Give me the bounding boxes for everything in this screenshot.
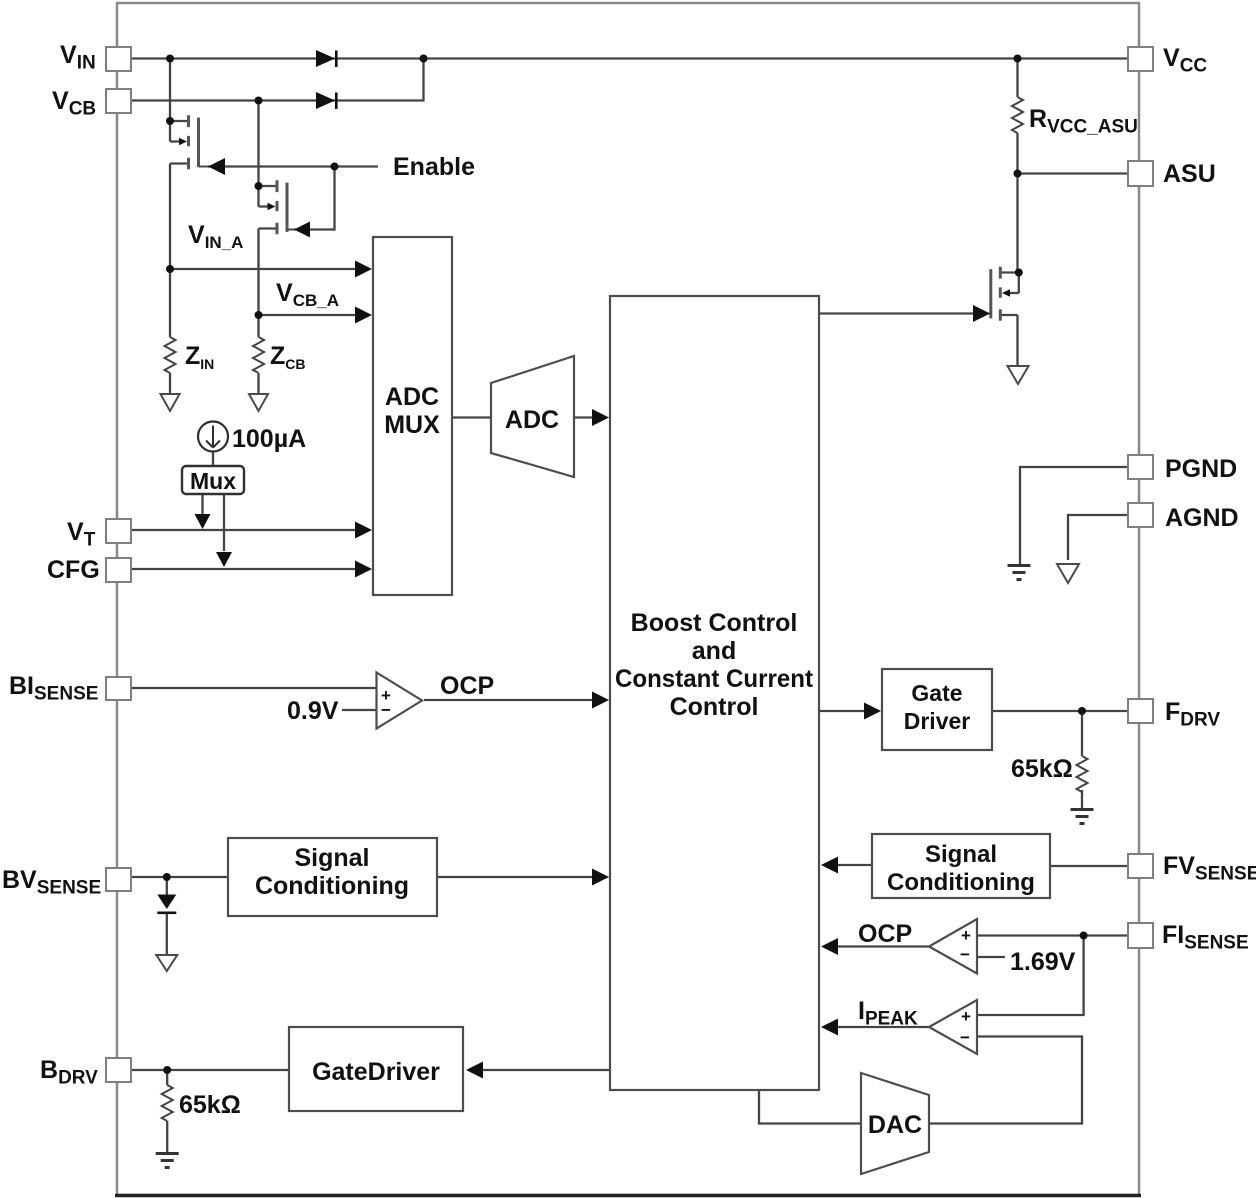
- svg-text:Enable: Enable: [393, 153, 475, 181]
- svg-text:1.69V: 1.69V: [1010, 948, 1076, 976]
- svg-text:CFG: CFG: [47, 556, 100, 584]
- svg-text:DAC: DAC: [868, 1111, 922, 1139]
- svg-text:65kΩ: 65kΩ: [179, 1091, 241, 1119]
- svg-text:Constant Current: Constant Current: [615, 665, 814, 693]
- svg-text:Driver: Driver: [904, 708, 971, 734]
- svg-text:+: +: [961, 1007, 971, 1026]
- svg-text:Conditioning: Conditioning: [255, 872, 409, 900]
- svg-text:and: and: [692, 637, 736, 665]
- svg-text:GateDriver: GateDriver: [312, 1058, 440, 1086]
- svg-text:PGND: PGND: [1165, 455, 1237, 483]
- svg-text:Gate: Gate: [911, 680, 962, 706]
- svg-text:Boost Control: Boost Control: [631, 609, 798, 637]
- svg-text:OCP: OCP: [440, 672, 494, 700]
- svg-text:+: +: [961, 926, 971, 945]
- svg-text:−: −: [960, 1028, 970, 1047]
- svg-text:AGND: AGND: [1165, 504, 1239, 532]
- svg-text:−: −: [381, 701, 391, 720]
- svg-text:0.9V: 0.9V: [287, 697, 339, 725]
- svg-text:−: −: [960, 945, 970, 964]
- svg-text:ADC: ADC: [505, 406, 559, 434]
- svg-text:ADC: ADC: [385, 383, 439, 411]
- svg-text:Signal: Signal: [294, 844, 369, 872]
- svg-text:Mux: Mux: [190, 468, 236, 494]
- svg-text:MUX: MUX: [384, 411, 440, 439]
- svg-text:Control: Control: [670, 693, 759, 721]
- svg-text:Conditioning: Conditioning: [887, 869, 1035, 896]
- svg-text:65kΩ: 65kΩ: [1011, 755, 1073, 783]
- svg-text:OCP: OCP: [858, 920, 912, 948]
- svg-text:ASU: ASU: [1163, 160, 1216, 188]
- svg-text:100µA: 100µA: [232, 425, 306, 453]
- svg-text:Signal: Signal: [925, 841, 997, 868]
